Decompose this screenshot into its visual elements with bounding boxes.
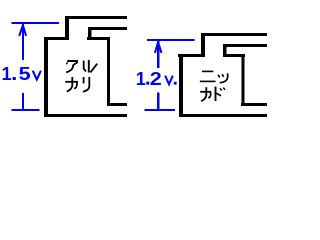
battery 2 shoulder step [178, 54, 205, 57]
battery 2 inner top line [223, 44, 267, 47]
battery 1 inner upper vertical [88, 27, 91, 40]
dimension 1 arrow shaft upper segment [22, 24, 24, 60]
battery 2 inner step line [223, 54, 245, 57]
battery 2 inner long vertical [241, 54, 244, 106]
dimension 1 top cap line [12, 22, 60, 24]
katakana KA (カ) of アルカリ [65, 77, 78, 92]
label 1.5v [2, 64, 31, 84]
katakana NI (ニ) of ニッカド [200, 71, 216, 81]
battery 2 inner upper vertical [223, 44, 226, 57]
battery 1 inner long vertical [107, 37, 110, 106]
battery 2 outer upper-left wall [201, 33, 205, 57]
dimension 2 bottom cap line [145, 109, 175, 111]
battery 1 outer upper-left wall [65, 16, 69, 40]
dimension 2 top cap line [147, 39, 194, 41]
katakana RU (ル) of アルカリ [84, 60, 98, 73]
dimension 1 arrowhead [19, 25, 26, 36]
battery 1 shoulder step [44, 37, 69, 40]
battery 2 outer lower-left wall [179, 54, 183, 117]
dimension 1 arrow shaft lower segment [22, 93, 24, 111]
svg-text:1: 1 [2, 64, 12, 84]
battery 1 inner step line [87, 37, 109, 40]
katakana small TSU (ッ) of ニッカド [218, 73, 228, 82]
label 1.2v [136, 69, 162, 89]
battery 1 inner top line [88, 27, 127, 30]
svg-text:5: 5 [19, 64, 31, 84]
katakana DO (ド) of ニッカド [216, 87, 226, 101]
svg-text:1: 1 [136, 69, 146, 89]
katakana KA (カ) of ニッカド [200, 87, 211, 101]
battery 2 (nicad) outer top line [201, 33, 267, 36]
dimension 1 bottom cap line [12, 109, 40, 111]
battery 2 inner bottom line [241, 103, 267, 106]
battery 1 outer bottom line [44, 114, 127, 117]
svg-text:2: 2 [150, 69, 162, 89]
katakana A (ア) of アルカリ [66, 61, 78, 72]
battery 1 outer lower-left wall [44, 37, 48, 117]
battery 1 inner bottom line [107, 103, 127, 106]
dimension 2 arrow shaft lower segment [157, 93, 159, 111]
dimension 2 arrowhead [155, 42, 162, 53]
battery 1 (alkaline) outer top line [65, 16, 127, 19]
battery 2 outer bottom line [179, 114, 267, 117]
katakana RI (リ) of アルカリ [83, 77, 89, 92]
dimension 2 arrow shaft upper segment [157, 41, 159, 68]
